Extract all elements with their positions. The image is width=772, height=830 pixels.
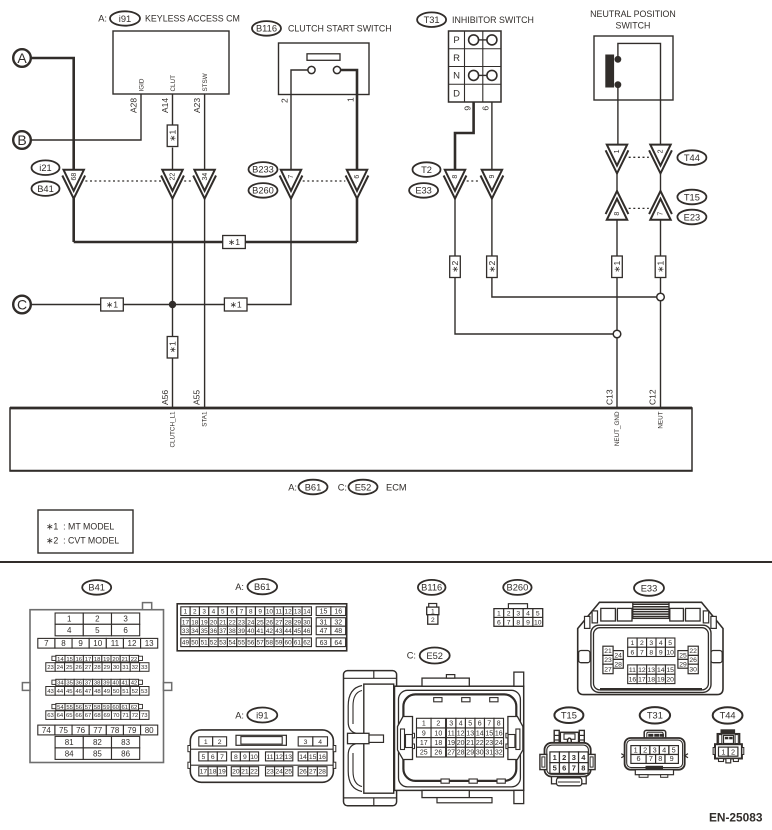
wire connector 8 down xyxy=(454,198,456,256)
connector E52 left latch xyxy=(398,717,415,760)
svg-text:C:: C: xyxy=(338,482,347,492)
svg-text:6: 6 xyxy=(480,106,490,111)
svg-text:T15: T15 xyxy=(561,711,577,721)
svg-text:T15: T15 xyxy=(684,192,700,202)
svg-text:7: 7 xyxy=(487,721,491,728)
svg-text:25: 25 xyxy=(257,619,265,626)
svg-text:76: 76 xyxy=(76,726,85,735)
svg-text:8: 8 xyxy=(516,619,520,626)
svg-text:11: 11 xyxy=(111,639,120,648)
svg-text:85: 85 xyxy=(93,750,102,759)
svg-text:∗1: ∗1 xyxy=(656,260,666,272)
svg-text:E52: E52 xyxy=(426,651,443,661)
svg-text:13: 13 xyxy=(284,754,292,761)
svg-text:26: 26 xyxy=(75,665,82,671)
svg-text:86: 86 xyxy=(121,750,130,759)
svg-text:10: 10 xyxy=(666,649,674,656)
svg-text:83: 83 xyxy=(121,738,130,747)
label A: B61 C: E52 ECM xyxy=(288,480,406,495)
svg-text:7: 7 xyxy=(658,212,665,216)
clutch start switch box xyxy=(279,43,370,95)
svg-text:2: 2 xyxy=(507,611,511,618)
svg-text:44: 44 xyxy=(57,689,64,695)
svg-text:B41: B41 xyxy=(37,184,54,194)
connector B41 pins 14-22 xyxy=(52,655,143,662)
dotted connector tie 8-7 xyxy=(629,207,649,209)
svg-text:B: B xyxy=(17,132,26,148)
svg-text:27: 27 xyxy=(309,769,317,776)
svg-text:A:: A: xyxy=(235,582,244,592)
connector triangle 6 xyxy=(346,170,369,199)
oval label B41 xyxy=(32,181,60,196)
svg-text:12: 12 xyxy=(457,730,465,737)
svg-text:∗1: ∗1 xyxy=(168,129,178,141)
svg-text:16: 16 xyxy=(76,657,83,663)
svg-text:6: 6 xyxy=(230,608,234,615)
svg-text:78: 78 xyxy=(110,726,119,735)
svg-text:4: 4 xyxy=(659,640,663,647)
svg-text:9: 9 xyxy=(243,754,247,761)
svg-text:41: 41 xyxy=(122,681,129,687)
svg-text:14: 14 xyxy=(657,667,665,674)
pin label A56 xyxy=(160,390,170,405)
svg-text:33: 33 xyxy=(182,628,190,635)
connector T31 label xyxy=(640,707,670,723)
svg-text:51: 51 xyxy=(201,640,209,647)
svg-text:1: 1 xyxy=(422,721,426,728)
connector B41 pins 54-62 xyxy=(52,704,143,711)
svg-text:28: 28 xyxy=(285,619,293,626)
wire *1 box to connector 22 xyxy=(172,148,174,170)
svg-text:35: 35 xyxy=(66,681,73,687)
svg-text:28: 28 xyxy=(318,769,326,776)
svg-text:17: 17 xyxy=(638,676,646,683)
svg-text:5: 5 xyxy=(536,611,540,618)
svg-text:B41: B41 xyxy=(88,583,105,593)
wire C to junction xyxy=(31,304,173,306)
svg-text:1: 1 xyxy=(204,739,208,746)
connector E52 right latch xyxy=(506,717,523,760)
svg-text:50: 50 xyxy=(191,640,199,647)
wire neutral pin 2 xyxy=(618,43,661,144)
svg-text:NEUT: NEUT xyxy=(657,411,664,428)
neutral position switch box xyxy=(594,36,673,100)
svg-text:13: 13 xyxy=(648,667,656,674)
value box *1 on C13 wire xyxy=(612,256,623,278)
svg-text:C12: C12 xyxy=(648,389,658,405)
svg-text:61: 61 xyxy=(294,640,302,647)
svg-text:1: 1 xyxy=(497,611,501,618)
svg-text:A:: A: xyxy=(98,14,107,24)
svg-text:T44: T44 xyxy=(720,711,736,721)
separator line xyxy=(0,561,772,563)
svg-text:8: 8 xyxy=(649,649,653,656)
svg-text:23: 23 xyxy=(47,665,54,671)
svg-text:T44: T44 xyxy=(684,153,700,163)
svg-text:24: 24 xyxy=(57,665,64,671)
svg-text:19: 19 xyxy=(103,657,110,663)
svg-text:61: 61 xyxy=(122,705,129,711)
svg-text:77: 77 xyxy=(93,726,102,735)
svg-text:23: 23 xyxy=(238,619,246,626)
svg-text:13: 13 xyxy=(466,730,474,737)
connector B260 housing and pins xyxy=(494,604,543,627)
svg-text:B260: B260 xyxy=(507,583,529,593)
svg-text:26: 26 xyxy=(689,657,697,664)
oval label B233 xyxy=(249,162,278,177)
dotted connector tie 1-2 xyxy=(629,156,649,158)
svg-text:52: 52 xyxy=(210,640,218,647)
svg-text:22: 22 xyxy=(689,648,697,655)
label B116 CLUTCH START SWITCH xyxy=(252,21,392,36)
svg-text:7: 7 xyxy=(288,175,295,179)
svg-text:5: 5 xyxy=(221,608,225,615)
svg-text:20: 20 xyxy=(210,619,218,626)
svg-text:B61: B61 xyxy=(254,582,271,592)
svg-text:B260: B260 xyxy=(252,186,274,196)
svg-text:1: 1 xyxy=(67,615,72,624)
connector T44 base xyxy=(719,759,739,763)
svg-text:9: 9 xyxy=(526,619,530,626)
svg-text:2: 2 xyxy=(731,747,735,756)
pin label A28 xyxy=(129,98,139,113)
ECM pin name CLUTCH_L1 xyxy=(169,411,176,448)
svg-text:25: 25 xyxy=(420,750,428,757)
connector B41 pins 74-80 xyxy=(38,725,158,735)
svg-text:13: 13 xyxy=(294,608,302,615)
svg-text:29: 29 xyxy=(679,661,687,668)
pin label 6 xyxy=(480,106,490,111)
svg-text:69: 69 xyxy=(103,713,110,719)
clutch switch contact right xyxy=(333,66,340,73)
svg-text:14: 14 xyxy=(57,657,64,663)
node circle on C12 line xyxy=(657,293,665,301)
svg-text:16: 16 xyxy=(629,676,637,683)
svg-text:21: 21 xyxy=(219,619,227,626)
connector B41 label xyxy=(82,580,111,595)
wire clutch switch pin 2 xyxy=(291,70,308,170)
svg-text:19: 19 xyxy=(218,769,226,776)
svg-text:9: 9 xyxy=(659,649,663,656)
svg-text:∗1: ∗1 xyxy=(228,237,240,247)
connector B41 pins 23-33 xyxy=(46,663,149,672)
label T31 INHIBITOR SWITCH xyxy=(417,12,534,27)
wire clutch switch pin 1 (bold) xyxy=(341,70,357,170)
svg-text:24: 24 xyxy=(275,769,283,776)
svg-text:22: 22 xyxy=(250,769,258,776)
svg-text:58: 58 xyxy=(94,705,101,711)
svg-text:6: 6 xyxy=(497,619,501,626)
svg-text:26: 26 xyxy=(299,769,307,776)
svg-text:81: 81 xyxy=(65,738,74,747)
svg-text:6: 6 xyxy=(123,626,128,635)
svg-text:56: 56 xyxy=(76,705,83,711)
svg-text:9: 9 xyxy=(422,730,426,737)
svg-text:34: 34 xyxy=(202,173,209,181)
svg-text:18: 18 xyxy=(648,676,656,683)
svg-text:13: 13 xyxy=(145,639,154,648)
svg-text:8: 8 xyxy=(658,754,662,763)
value box *2 left xyxy=(450,256,461,278)
wire neutral pin 1 xyxy=(617,85,619,145)
svg-text:52: 52 xyxy=(132,689,139,695)
svg-text:D: D xyxy=(453,89,460,100)
svg-text:B116: B116 xyxy=(256,24,277,34)
svg-text:57: 57 xyxy=(85,705,92,711)
svg-text:55: 55 xyxy=(238,640,246,647)
svg-text:17: 17 xyxy=(200,769,208,776)
svg-text:E23: E23 xyxy=(684,212,701,222)
wire 2 to 7 xyxy=(660,173,662,191)
svg-text:11: 11 xyxy=(448,730,455,737)
svg-text:24: 24 xyxy=(614,653,622,660)
svg-text:30: 30 xyxy=(476,750,484,757)
connector T31 base xyxy=(635,766,673,777)
svg-text:49: 49 xyxy=(182,640,190,647)
pin label 1 xyxy=(345,97,355,102)
svg-text:59: 59 xyxy=(275,640,283,647)
pin label 2 xyxy=(279,98,289,103)
svg-text:8: 8 xyxy=(497,721,501,728)
connector E33 label xyxy=(634,580,664,596)
svg-text:A23: A23 xyxy=(192,98,202,113)
svg-text:73: 73 xyxy=(141,713,148,719)
svg-text:15: 15 xyxy=(309,754,317,761)
svg-text:44: 44 xyxy=(285,628,293,635)
svg-text:27: 27 xyxy=(85,665,92,671)
svg-text:29: 29 xyxy=(294,619,302,626)
connector E33 housing xyxy=(578,602,723,694)
svg-text:E33: E33 xyxy=(641,583,658,593)
neutral switch blade xyxy=(606,55,614,87)
svg-text:42: 42 xyxy=(131,681,138,687)
svg-text:58: 58 xyxy=(266,640,274,647)
svg-text:4: 4 xyxy=(318,739,322,746)
svg-text:37: 37 xyxy=(85,681,92,687)
svg-text:36: 36 xyxy=(210,628,218,635)
svg-text:C: C xyxy=(17,297,27,313)
dotted connector tie 8-9 xyxy=(467,180,481,182)
pin label C12 xyxy=(648,389,658,405)
node circle on C13 line xyxy=(613,330,621,338)
svg-text:8: 8 xyxy=(249,608,253,615)
svg-text:31: 31 xyxy=(122,665,129,671)
wire A to connector 68 (bold) xyxy=(31,58,74,170)
connector E33 top hatch xyxy=(633,602,669,618)
connector triangle 22 xyxy=(161,170,184,199)
svg-text:EN-25083: EN-25083 xyxy=(709,810,763,824)
svg-text:24: 24 xyxy=(247,619,255,626)
connector T15 side wings xyxy=(540,754,595,769)
svg-text:39: 39 xyxy=(103,681,110,687)
connector E33 pins 22-30 right cluster xyxy=(678,646,698,674)
svg-text:∗1: ∗1 xyxy=(612,260,622,272)
svg-text:3: 3 xyxy=(304,739,308,746)
svg-text:43: 43 xyxy=(47,689,54,695)
wire keyless A14 (CLUT) down xyxy=(172,94,174,125)
node A terminal xyxy=(13,49,31,67)
svg-text:45: 45 xyxy=(294,628,302,635)
inhibitor switch table xyxy=(449,31,502,102)
svg-text:53: 53 xyxy=(141,689,148,695)
svg-text:26: 26 xyxy=(434,750,442,757)
connector triangle 34 xyxy=(193,170,216,199)
svg-text:4: 4 xyxy=(526,611,530,618)
svg-text:47: 47 xyxy=(85,689,92,695)
wire junction to connector 7 xyxy=(173,198,292,304)
svg-text:35: 35 xyxy=(201,628,209,635)
svg-text:16: 16 xyxy=(334,609,342,616)
connector E33 inner shell xyxy=(591,625,711,692)
connector B61 pins 1-14 xyxy=(181,607,312,616)
svg-text:14: 14 xyxy=(303,608,311,615)
wire inhibitor pin 6 xyxy=(491,102,493,170)
svg-text:6: 6 xyxy=(562,764,566,773)
svg-text:20: 20 xyxy=(666,676,674,683)
svg-text:60: 60 xyxy=(112,705,119,711)
svg-text:∗1: ∗1 xyxy=(230,300,242,310)
svg-text:4: 4 xyxy=(662,746,666,755)
connector E52 pins left block xyxy=(417,718,446,757)
svg-text:1: 1 xyxy=(721,747,725,756)
svg-text:51: 51 xyxy=(122,689,129,695)
svg-text:84: 84 xyxy=(65,750,74,759)
svg-text:2: 2 xyxy=(640,640,644,647)
inhibitor P/N contacts xyxy=(469,35,497,81)
svg-text:8: 8 xyxy=(234,754,238,761)
svg-text:42: 42 xyxy=(266,628,274,635)
svg-text:29: 29 xyxy=(103,665,110,671)
wire connector 34 to ECM pin A55 xyxy=(204,198,206,407)
pin label C13 xyxy=(605,389,615,405)
label A: i91 KEYLESS ACCESS CM xyxy=(98,11,240,25)
bus wire 68-6 (bold) xyxy=(74,241,357,244)
svg-text:53: 53 xyxy=(219,640,227,647)
svg-text:2: 2 xyxy=(95,615,100,624)
svg-text:38: 38 xyxy=(229,628,237,635)
svg-text:A:: A: xyxy=(235,710,244,720)
svg-text:7: 7 xyxy=(507,619,511,626)
connector triangle 2 xyxy=(649,145,672,174)
svg-text:8: 8 xyxy=(452,175,459,179)
oval label i21 xyxy=(32,160,60,175)
wire keyless A23 (STSW) down xyxy=(204,94,206,170)
svg-text:14: 14 xyxy=(476,730,484,737)
svg-text:NEUTRAL POSITION: NEUTRAL POSITION xyxy=(590,9,676,19)
svg-text:63: 63 xyxy=(47,713,54,719)
wire connector 8 to ECM C13 xyxy=(616,220,618,407)
svg-text:11: 11 xyxy=(629,667,636,674)
svg-text:4: 4 xyxy=(67,626,72,635)
svg-text:29: 29 xyxy=(466,750,474,757)
svg-text:ECM: ECM xyxy=(386,482,407,492)
svg-text:∗1: ∗1 xyxy=(106,300,118,310)
svg-text:B233: B233 xyxy=(252,165,274,175)
connector i91 housing xyxy=(188,730,336,782)
svg-text:66: 66 xyxy=(75,713,82,719)
svg-text:3: 3 xyxy=(516,611,520,618)
svg-text:i91: i91 xyxy=(119,14,131,24)
svg-text:2: 2 xyxy=(431,617,435,624)
svg-text:R: R xyxy=(453,53,460,64)
wire connector 22 to junction xyxy=(172,198,174,301)
svg-text:9: 9 xyxy=(670,754,674,763)
svg-text:5: 5 xyxy=(553,764,557,773)
svg-text:15: 15 xyxy=(666,667,674,674)
svg-text:C13: C13 xyxy=(605,389,615,405)
keyless access CM box xyxy=(113,31,229,94)
svg-text:CLUTCH_L1: CLUTCH_L1 xyxy=(169,411,176,448)
svg-text:27: 27 xyxy=(604,667,612,674)
svg-text:26: 26 xyxy=(266,619,274,626)
svg-text:2: 2 xyxy=(562,753,566,762)
svg-text:8: 8 xyxy=(614,212,621,216)
wire B to keyless pin A28 xyxy=(31,94,141,140)
svg-text:3: 3 xyxy=(653,746,657,755)
wire connector 7 to ECM C12 xyxy=(660,220,662,407)
svg-text:7: 7 xyxy=(640,649,644,656)
svg-text:62: 62 xyxy=(131,705,138,711)
svg-text:41: 41 xyxy=(257,628,265,635)
svg-text:E52: E52 xyxy=(355,482,372,492)
svg-text:1: 1 xyxy=(553,753,557,762)
svg-text:30: 30 xyxy=(689,667,697,674)
svg-text:56: 56 xyxy=(247,640,255,647)
svg-text:i21: i21 xyxy=(39,163,51,173)
svg-text:11: 11 xyxy=(275,608,282,615)
value box *1 on bus xyxy=(223,236,246,249)
svg-text:62: 62 xyxy=(303,640,311,647)
svg-text:32: 32 xyxy=(495,750,503,757)
svg-text:43: 43 xyxy=(275,628,283,635)
connector T31 shell xyxy=(621,738,688,770)
connector B61 pins 15-64 right block xyxy=(316,607,345,647)
connector E33 top lugs xyxy=(585,608,717,628)
value box *1 on CLUT wire xyxy=(167,125,178,147)
clutch switch actuator xyxy=(307,54,340,61)
svg-text:7: 7 xyxy=(240,608,244,615)
svg-text:10: 10 xyxy=(534,619,542,626)
svg-text:3: 3 xyxy=(202,608,206,615)
svg-text:57: 57 xyxy=(257,640,265,647)
svg-text:5: 5 xyxy=(668,640,672,647)
svg-text:10: 10 xyxy=(93,639,102,648)
svg-text:6: 6 xyxy=(478,721,482,728)
svg-text:4: 4 xyxy=(459,721,463,728)
svg-text:68: 68 xyxy=(94,713,101,719)
svg-text:15: 15 xyxy=(320,609,328,616)
svg-text:16: 16 xyxy=(318,754,326,761)
svg-text:22: 22 xyxy=(170,173,177,181)
svg-text:33: 33 xyxy=(141,665,148,671)
svg-text:50: 50 xyxy=(113,689,120,695)
svg-text:6: 6 xyxy=(354,175,361,179)
svg-text:15: 15 xyxy=(485,730,493,737)
dotted connector tie 7-6 xyxy=(303,180,346,182)
pin label A23 xyxy=(192,98,202,113)
clutch switch contact left xyxy=(308,66,315,73)
svg-text:6: 6 xyxy=(211,754,215,761)
connector B61 label xyxy=(235,579,277,594)
svg-text:40: 40 xyxy=(247,628,255,635)
value box *1 right of junction xyxy=(224,298,247,311)
svg-text:28: 28 xyxy=(614,661,622,668)
svg-text:T31: T31 xyxy=(647,711,663,721)
svg-text:7: 7 xyxy=(572,764,576,773)
label NEUTRAL POSITION SWITCH xyxy=(590,9,676,31)
connector T44 label xyxy=(713,707,743,723)
svg-text:∗1: ∗1 xyxy=(168,341,178,353)
